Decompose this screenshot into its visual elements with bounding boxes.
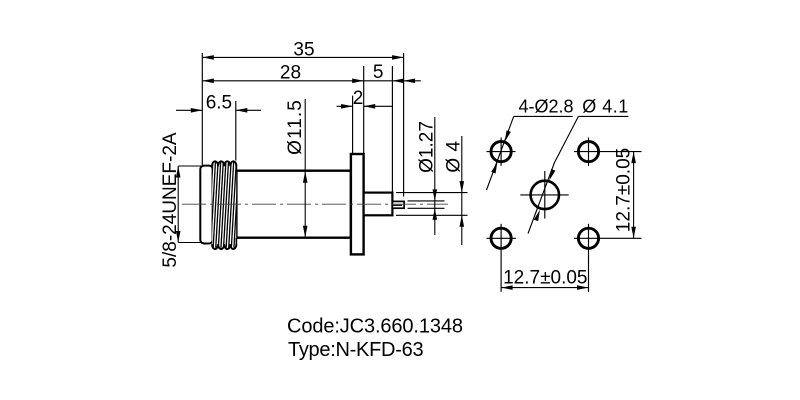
- center hole dia 4.1: [531, 181, 559, 209]
- ext line thread end: [235, 101, 237, 161]
- dimension dia 1.27 (pin): [416, 117, 437, 235]
- center contact pin: [392, 201, 404, 208]
- dimension dia 11.5: [285, 99, 308, 237]
- dimension 28: [202, 62, 363, 83]
- svg-text:5: 5: [373, 62, 384, 83]
- dimension 5: [364, 62, 421, 83]
- ext lines pin diameter: [408, 200, 445, 202]
- svg-text:12.7±0.05: 12.7±0.05: [503, 267, 587, 288]
- dimension 35: [202, 39, 403, 60]
- svg-text:Ø 4: Ø 4: [443, 140, 464, 172]
- centermark horizontal + ext line, hole top-right: [574, 151, 642, 153]
- dimension 5/8-24UNEF-2A: [160, 132, 204, 267]
- centermark vertical, center hole: [544, 171, 546, 219]
- svg-text:5/8-24UNEF-2A: 5/8-24UNEF-2A: [160, 132, 181, 267]
- centermark horizontal + ext line, hole bottom-right: [574, 237, 642, 239]
- ext line flange left: [352, 96, 354, 153]
- svg-text:Type:N-KFD-63: Type:N-KFD-63: [288, 339, 423, 361]
- svg-text:2: 2: [353, 88, 364, 109]
- ext line flange right: [363, 66, 365, 153]
- insulator bushing: [364, 193, 393, 216]
- ext line insulator end: [391, 66, 393, 192]
- dimension 2 (flange thickness): [337, 88, 393, 109]
- centermark vertical + ext line, hole bottom-right: [588, 224, 590, 292]
- svg-text:4-Ø2.8: 4-Ø2.8: [519, 96, 574, 116]
- ext line pin tip: [403, 53, 405, 197]
- centermark horizontal, hole top-left: [487, 151, 516, 153]
- connector body cylinder: [236, 171, 351, 238]
- extension lines: [202, 53, 467, 215]
- hole top-left: [491, 142, 511, 162]
- svg-text:Ø11.5: Ø11.5: [285, 99, 306, 155]
- centermark vertical, hole top-right: [588, 138, 590, 166]
- dimension 12.7 right: [614, 148, 636, 238]
- hole bottom-left: [491, 228, 511, 248]
- hole bottom-right: [578, 228, 598, 248]
- svg-text:28: 28: [280, 62, 301, 83]
- dimension dia 4 (insulator): [443, 136, 464, 245]
- centermark horizontal, center hole: [520, 194, 568, 196]
- leader 4-dia2.8: [487, 96, 574, 190]
- mounting flange (side): [351, 154, 364, 254]
- svg-text:6.5: 6.5: [206, 92, 232, 113]
- centermark vertical, hole top-left: [500, 138, 502, 166]
- coupling nut cap (rounded): [200, 166, 212, 244]
- centermark vertical + ext line, hole bottom-left: [500, 224, 502, 292]
- hole top-right: [578, 142, 598, 162]
- ext lines insulator diameter: [396, 192, 468, 194]
- svg-text:Ø 4.1: Ø 4.1: [582, 96, 629, 116]
- dimension 12.7 bottom: [501, 267, 588, 290]
- svg-text:Ø1.27: Ø1.27: [416, 121, 437, 173]
- contact slot line: [392, 204, 402, 206]
- svg-text:35: 35: [293, 39, 314, 60]
- centermark horizontal, hole bottom-left: [487, 237, 517, 239]
- leader dia 4.1: [528, 96, 629, 233]
- svg-text:12.7±0.05: 12.7±0.05: [614, 148, 635, 232]
- axis centerline: [182, 203, 448, 205]
- dimension 6.5: [176, 92, 261, 113]
- svg-text:Code:JC3.660.1348: Code:JC3.660.1348: [287, 316, 463, 338]
- ext line left (cap face): [201, 53, 203, 165]
